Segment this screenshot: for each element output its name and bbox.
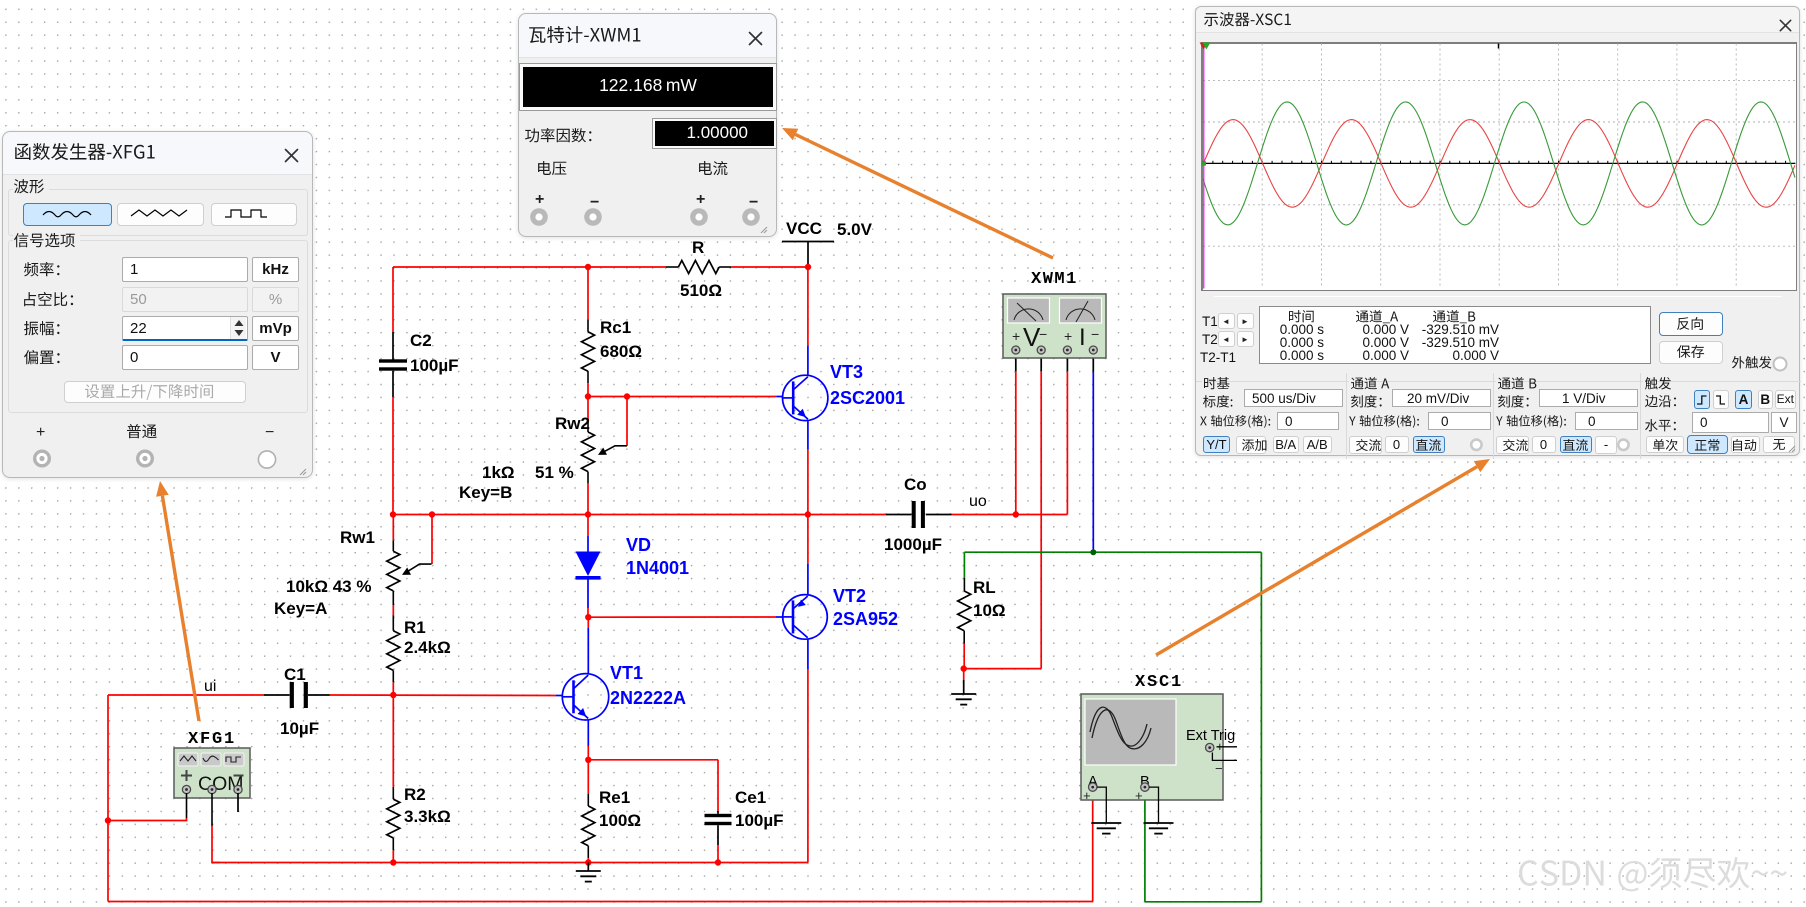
wire emitter node to Ce1 xyxy=(588,760,718,811)
instrument icon XSC1 (oscilloscope) xyxy=(1081,694,1237,834)
junction base-Rw2 xyxy=(585,393,591,399)
wire base node to VT3 xyxy=(588,396,783,398)
wire Rw2 wiper branch xyxy=(598,397,627,455)
power VCC 5.0V xyxy=(782,219,873,264)
junction mid-VT23 xyxy=(805,511,811,517)
junction top-VCC xyxy=(805,264,811,270)
annotation arrow to XWM1 panel xyxy=(782,128,1053,258)
label XFG1 xyxy=(188,730,236,749)
wire green right loop to scope B xyxy=(1145,552,1262,902)
wire Rw2 bottom lead xyxy=(587,472,589,515)
wire R2 top lead xyxy=(392,695,394,799)
capacitor C1 10uF xyxy=(280,665,319,738)
junction base-wiper xyxy=(624,393,630,399)
capacitor Co 1000uF xyxy=(884,475,942,554)
wire RL bottom lead xyxy=(963,631,965,669)
wire R1 bottom lead xyxy=(392,670,394,695)
wire Rc1 bottom lead xyxy=(587,371,589,396)
transistor VT2 2SA952 (PNP) xyxy=(783,586,898,639)
potentiometer Rw1 10k&#937; 43% Key=A xyxy=(274,528,400,618)
wire mid rail xyxy=(393,514,1067,516)
wire XWM1 I- (blue) xyxy=(1092,354,1094,552)
transistor VT1 2N2222A (NPN) xyxy=(562,663,686,720)
node ui xyxy=(204,678,216,695)
wire VT2 collector (down) xyxy=(807,639,809,863)
stub XFG1 minus xyxy=(237,793,239,812)
scope trace channel A (red) xyxy=(1203,120,1795,208)
diode VD 1N4001 xyxy=(576,535,690,578)
wire C1 to VT1 base xyxy=(308,694,562,697)
junction mid-C2 xyxy=(390,511,396,517)
label XSC1 xyxy=(1135,673,1183,692)
junction left-XFG+ xyxy=(105,817,111,823)
wire Re1 bottom lead xyxy=(587,846,589,863)
wire top rail left xyxy=(393,266,678,268)
junction bottom-Ce1 xyxy=(715,859,721,865)
resistor Re1 100&#937; xyxy=(582,760,641,846)
wire C2 bottom lead xyxy=(392,371,394,515)
wire C2 top lead xyxy=(392,267,394,360)
annotation arrow to XSC1 panel xyxy=(1156,459,1490,655)
wire ui net to scope A xyxy=(108,792,1093,902)
potentiometer Rw2 1k&#937; 51% Key=B xyxy=(459,414,595,502)
wire XWM1 I+ xyxy=(1066,354,1068,515)
junction mid-wiper xyxy=(429,511,435,517)
wire to VT2 base xyxy=(588,616,783,618)
capacitor C2 100uF xyxy=(379,331,459,375)
wire Rc1 top lead xyxy=(587,267,589,332)
label XWM1 xyxy=(1031,270,1078,289)
capacitor Ce1 100uF xyxy=(705,788,784,830)
junction RL bottom xyxy=(961,665,967,671)
instrument icon XFG1 (function generator) xyxy=(174,748,250,798)
resistor R2 3.3k&#937; xyxy=(387,785,451,838)
junction input-R1R2 xyxy=(390,692,396,698)
wire VD top lead xyxy=(587,515,589,553)
wire Rw1 wiper branch xyxy=(402,515,432,575)
wire left vertical (ui net) xyxy=(107,695,109,902)
wire XWM1 V- to RL bottom xyxy=(964,354,1041,669)
wire green RL top rail xyxy=(964,552,1261,578)
ground RL xyxy=(951,669,976,705)
junction top-Rc1 xyxy=(585,264,591,270)
scope trace channel B (green) xyxy=(1203,102,1795,225)
resistor R1 2.4k&#937; xyxy=(387,618,451,670)
resistor Rc1 680&#937; xyxy=(582,318,643,371)
resistor RL 10&#937; xyxy=(958,578,1006,631)
junction bottom-R2 xyxy=(390,859,396,865)
wire VT3 collector xyxy=(807,267,809,376)
wire VT2 emitter (top) xyxy=(807,515,809,596)
junction mid-VD xyxy=(585,511,591,517)
junction VD-VT1-VT2base xyxy=(585,614,591,620)
transistor VT3 2SC2001 (NPN) xyxy=(783,362,906,421)
junction bottom-Re1-ground xyxy=(585,859,591,865)
junction mid-V+ xyxy=(1013,511,1019,517)
wire Rw1 top lead xyxy=(392,515,394,552)
wire bottom rail xyxy=(212,862,808,864)
node uo xyxy=(969,493,987,510)
junction green-I- xyxy=(1090,549,1096,555)
wire VT3 emitter xyxy=(807,420,809,515)
junction VT1emitter-Re1-Ce1 xyxy=(585,757,591,763)
wire Rw2 top lead xyxy=(587,397,589,433)
wire Rw1 to R1 xyxy=(392,591,394,631)
wire VT1 emitter xyxy=(587,720,589,760)
wire VT1 collector xyxy=(587,617,589,674)
resistor R 510&#937; xyxy=(678,238,722,300)
annotation arrow to XFG1 panel xyxy=(156,481,199,721)
wire XFG1 + to left rail xyxy=(108,793,187,821)
wire input from XFG1 xyxy=(108,694,290,696)
wire XFG1 COM to bottom rail xyxy=(212,793,220,863)
wire VD bottom lead xyxy=(587,578,589,617)
wire Ce1 bottom lead xyxy=(717,825,719,862)
instrument icon XWM1 (wattmeter) xyxy=(1003,294,1106,358)
wire XWM1 V+ xyxy=(1015,354,1017,515)
wire R2 bottom lead xyxy=(392,838,394,863)
wire top rail right xyxy=(719,266,808,268)
ground main xyxy=(576,863,601,882)
